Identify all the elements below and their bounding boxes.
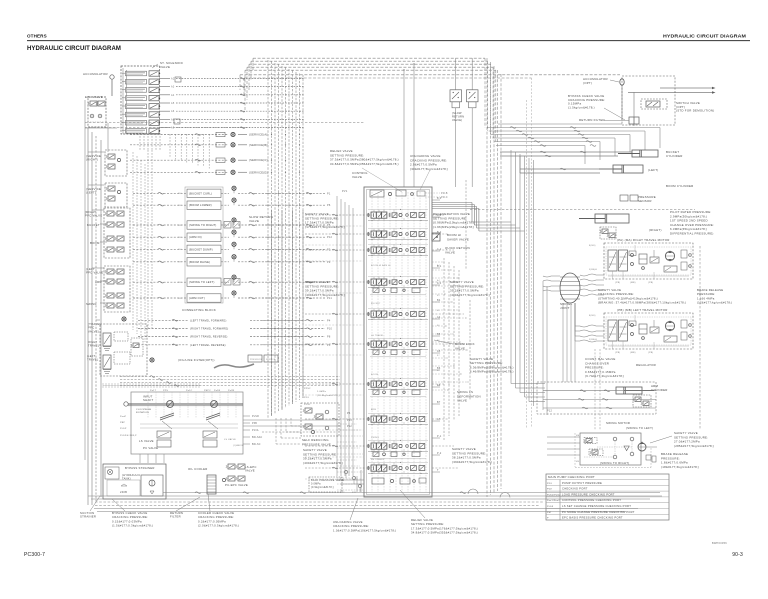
svg-text:WH: WH	[178, 282, 182, 284]
quick return valve on boundary	[432, 233, 440, 241]
boom cylinder wires	[520, 168, 613, 170]
svg-text:BOOM CYLINDER: BOOM CYLINDER	[666, 184, 694, 188]
svg-text:(400&#177;5kg/cm&#178;): (400&#177;5kg/cm&#178;)	[450, 293, 490, 297]
svg-text:B5: B5	[437, 333, 441, 336]
solenoid valve 5	[126, 104, 147, 109]
svg-text:PC-EPC VALVE: PC-EPC VALVE	[225, 483, 248, 487]
swivel joint risers	[562, 303, 564, 382]
travel ppc dark connector mid	[150, 358, 154, 362]
svg-text:B5: B5	[437, 295, 440, 297]
filter hose thick	[214, 364, 254, 368]
control valve auxiliary sub rows	[373, 288, 379, 293]
svg-text:A-2: A-2	[437, 248, 442, 251]
svg-text:PUMP OUTPUT PRESSURE: PUMP OUTPUT PRESSURE	[562, 481, 602, 485]
svg-text:(30&#177;5kg/cm&#178;): (30&#177;5kg/cm&#178;)	[410, 167, 448, 171]
svg-text:MAIN PUMP CHECKING PORT: MAIN PUMP CHECKING PORT	[548, 475, 595, 479]
svg-text:PLSP&#183;P: PLSP&#183;P	[120, 435, 137, 437]
connecting block outline	[185, 187, 223, 303]
svg-text:VALVE: VALVE	[457, 399, 467, 403]
pump internal wires	[147, 392, 149, 418]
solenoid valve 6	[126, 112, 147, 117]
right PPC valve block	[104, 208, 130, 258]
swing motor internals	[584, 438, 597, 444]
pump 2 circle	[211, 401, 218, 408]
hoses into swivel from left	[543, 276, 560, 277]
svg-text:JOINT: JOINT	[560, 306, 570, 310]
svg-text:PPS2: PPS2	[304, 388, 311, 390]
vertical bundle from top corners	[486, 58, 488, 497]
svg-text:BFLSAC: BFLSAC	[252, 436, 263, 439]
svg-text:P-1: P-1	[437, 435, 442, 438]
svg-text:P21: P21	[352, 492, 357, 494]
svg-text:B4: B4	[437, 385, 440, 387]
relief test ports bottom	[344, 470, 347, 473]
solenoid output bus dots	[271, 78, 272, 79]
left frame vertical lines	[87, 128, 89, 505]
arm cylinder	[616, 387, 642, 394]
solenoid output hoses	[240, 78, 245, 80]
svg-text:34.8&#177;0.5MPa(355&#177;5kg/: 34.8&#177;0.5MPa(355&#177;5kg/cm&#178;)	[411, 531, 478, 535]
line to demolition return	[498, 123, 622, 125]
svg-text:A2: A2	[171, 77, 175, 80]
svg-text:A5: A5	[171, 102, 175, 105]
svg-text:PLS1/PLS2: PLS1/PLS2	[547, 494, 561, 496]
arm valve cluster	[633, 395, 651, 407]
svg-text:(SWING TO LEFT): (SWING TO LEFT)	[626, 426, 653, 430]
svg-text:B(MB): B(MB)	[589, 315, 596, 317]
svg-text:P12: P12	[347, 425, 352, 428]
svg-text:PC300-7: PC300-7	[24, 552, 45, 558]
svg-text:A-1: A-1	[437, 282, 442, 285]
svg-text:240B: 240B	[120, 490, 127, 494]
svg-text:DIFFERENTIAL PRESSURE): DIFFERENTIAL PRESSURE)	[670, 232, 714, 236]
svg-text:BUCKET: BUCKET	[371, 303, 381, 305]
svg-text:A5: A5	[437, 309, 440, 312]
svg-text:WH: WH	[178, 237, 182, 239]
left inner feed verticals	[132, 152, 134, 330]
hoses from swivel to left travel motor	[580, 325, 604, 327]
control valve work section 8	[371, 416, 376, 422]
svg-text:SHAFT: SHAFT	[143, 398, 153, 402]
svg-text:WH: WH	[178, 249, 182, 251]
svg-text:LS VALVE: LS VALVE	[139, 439, 154, 443]
top bundle line to accumulator opt	[240, 74, 620, 76]
svg-text:MB: MB	[576, 461, 580, 463]
boom cylinder valve cluster	[600, 227, 616, 239]
svg-text:(1.5kg/cm&#178;): (1.5kg/cm&#178;)	[568, 105, 595, 109]
svg-text:P8: P8	[327, 336, 331, 339]
tank inner box	[107, 480, 140, 496]
service left valve block	[105, 183, 127, 207]
swing internal wires	[614, 441, 616, 455]
vertical feed lines to control valve top	[403, 70, 405, 187]
row (SWING TO LEFT)	[133, 281, 187, 283]
svg-text:(176&#177;5kg/cm&#178;): (176&#177;5kg/cm&#178;)	[305, 225, 345, 229]
svg-text:REGULATOR: REGULATOR	[636, 363, 656, 367]
svg-text:(390&#177;5kg/cm&#178;): (390&#177;5kg/cm&#178;)	[452, 460, 492, 464]
svg-text:(MB): (MB)	[630, 282, 636, 284]
svg-text:VALVE): VALVE)	[88, 329, 99, 333]
solenoid valve 4	[126, 96, 147, 101]
top wire bundle from solenoid block	[253, 57, 485, 59]
svg-text:F(MA)B: F(MA)B	[589, 338, 598, 341]
svg-text:PPS1: PPS1	[304, 404, 311, 406]
right travel motor right valves	[681, 250, 687, 258]
control valve left pilot wires	[305, 214, 364, 216]
svg-text:(BOOM LOWER): (BOOM LOWER)	[189, 203, 212, 207]
return line with bumps	[163, 492, 660, 494]
mid right vertical bundle	[510, 150, 512, 384]
bucket cylinder	[632, 150, 658, 157]
pump swash plates	[160, 413, 174, 420]
travel row (RIGHT TRAVEL REVERSE)	[138, 336, 188, 338]
svg-text:STRAINER: STRAINER	[80, 515, 96, 519]
bus junction dots	[267, 193, 268, 194]
svg-text:PLSP: PLSP	[120, 428, 127, 430]
svg-text:(12&#177;kg/cm&#178;): (12&#177;kg/cm&#178;)	[697, 301, 732, 305]
row (BUCKET DUMP)	[133, 248, 187, 250]
pressure sensor boxes left	[248, 355, 262, 362]
row (ARM IN)	[133, 236, 187, 238]
svg-text:CONNECTING BLOCK: CONNECTING BLOCK	[182, 308, 216, 312]
checking port legend table	[546, 474, 669, 520]
svg-text:WH: WH	[178, 225, 182, 227]
svg-text:(OPT): (OPT)	[583, 81, 592, 85]
travel ppc dark connector top	[122, 317, 126, 321]
right travel motor internal dashed frame	[606, 247, 691, 275]
travel ppc inner dashed boxes	[114, 332, 128, 341]
svg-text:CYLINDER: CYLINDER	[666, 154, 683, 158]
svg-text:PLSR: PLSR	[252, 416, 259, 418]
svg-text:P4: P4	[327, 319, 331, 322]
hydraulic tank outline	[103, 464, 166, 499]
bus horizontal row links	[262, 192, 303, 194]
row (ARM OUT)	[133, 297, 187, 299]
svg-text:SWING MOTOR: SWING MOTOR	[606, 421, 630, 425]
pump drain lines to tank	[139, 454, 141, 463]
svg-text:Pex1/Pex2: Pex1/Pex2	[547, 500, 560, 502]
svg-text:BOOM: BOOM	[90, 241, 100, 245]
svg-text:P41B: P41B	[441, 193, 448, 195]
riser cross stubs bottom	[337, 423, 357, 425]
LS PC valve boxes pump2	[203, 431, 217, 438]
svg-text:B4: B4	[437, 265, 440, 267]
svg-text:(285&#177;5kg/cm&#178;): (285&#177;5kg/cm&#178;)	[674, 444, 714, 448]
LS-EPC PC-EPC valves	[228, 464, 235, 469]
left travel motor right valves	[681, 320, 687, 328]
svg-text:PPC VALVE: PPC VALVE	[85, 214, 102, 218]
svg-text:FILTER: FILTER	[170, 515, 181, 519]
solenoid valve 2	[126, 79, 147, 84]
svg-text:0.0MPa: 0.0MPa	[311, 483, 321, 486]
svg-text:CHECKING PORT: CHECKING PORT	[562, 487, 588, 491]
svg-text:PD1: PD1	[304, 397, 310, 399]
svg-text:(1.96)MPa(20kg/cm&#178;): (1.96)MPa(20kg/cm&#178;)	[433, 225, 475, 229]
svg-text:VALVE: VALVE	[445, 250, 455, 254]
svg-text:B6: B6	[437, 325, 440, 327]
svg-text:P-2: P-2	[437, 452, 442, 455]
slow return valves on swing-to-left row	[224, 279, 231, 286]
boom cylinder left	[613, 165, 643, 173]
control valve left boundary port dots	[363, 214, 364, 215]
oil cooler symbol	[207, 475, 216, 494]
svg-text:(LEFT TRAVEL FORWARD): (LEFT TRAVEL FORWARD)	[190, 319, 227, 322]
solenoid valve 3	[126, 88, 147, 93]
left frame horizontal stubs	[88, 151, 104, 153]
svg-text:PBP: PBP	[120, 422, 125, 424]
svg-text:P3B: P3B	[252, 423, 257, 425]
svg-text:WH: WH	[178, 193, 182, 195]
svg-text:EPC BASIS PRESSURE CHECKING PO: EPC BASIS PRESSURE CHECKING PORT	[562, 516, 623, 520]
travel row (LEFT TRAVEL REVERSE)	[138, 344, 188, 346]
service port rows	[130, 134, 228, 136]
svg-text:90-3: 90-3	[732, 552, 743, 558]
control valve work section 7	[371, 381, 376, 387]
left travel motor middle valve	[650, 327, 659, 333]
right travel motor counterbalance valves	[608, 250, 617, 271]
svg-text:LOAD PRESSURE CHECKING PORT: LOAD PRESSURE CHECKING PORT	[562, 492, 615, 496]
svg-text:(OIL/LINE FILTER(OPT)): (OIL/LINE FILTER(OPT))	[178, 358, 215, 362]
solenoid block feed lines left	[122, 68, 124, 134]
control valve work section 1	[371, 212, 376, 218]
svg-text:F(MA)B: F(MA)B	[589, 268, 598, 271]
svg-text:SENSOR: SENSOR	[638, 199, 652, 203]
svg-text:VALVE: VALVE	[160, 65, 170, 69]
svg-text:P12: P12	[327, 236, 333, 239]
svg-text:(BRAKING :37.4&#177;0.98MPa(38: (BRAKING :37.4&#177;0.98MPa(380&#177;10k…	[598, 301, 686, 305]
bottom frame notches	[468, 489, 478, 494]
svg-text:PRESSURE VALVE: PRESSURE VALVE	[302, 442, 331, 446]
svg-text:P6: P6	[327, 204, 331, 207]
accumulator opt drop wire	[621, 85, 623, 120]
cylinder supply line bundle right side	[487, 127, 660, 129]
svg-text:(HYDRAULIC: (HYDRAULIC	[122, 473, 140, 477]
swivel left feed verticals	[542, 281, 544, 410]
svg-text:(18&#177;6kg/cm&#178;): (18&#177;6kg/cm&#178;)	[661, 465, 699, 469]
svg-text:A4: A4	[437, 279, 440, 282]
svg-text:WH: WH	[178, 262, 182, 264]
svg-text:(I)VALVE: (I)VALVE	[233, 444, 244, 447]
return filter symbol	[629, 117, 639, 124]
svg-text:(400&#177;5kg/cm&#178;): (400&#177;5kg/cm&#178;)	[303, 461, 343, 465]
row (BOOM LOWER)	[133, 204, 187, 206]
control valve work section 4	[371, 279, 376, 285]
solenoid valve block outline	[121, 66, 160, 134]
control valve internal vertical dashed lines	[371, 192, 373, 492]
svg-text:RH TRAVEL: RH TRAVEL	[371, 458, 385, 461]
svg-text:A7: A7	[437, 369, 440, 372]
svg-text:(PB): (PB)	[615, 282, 620, 284]
pump 1 circle	[167, 401, 174, 408]
svg-text:(BOOM RAISE): (BOOM RAISE)	[189, 260, 210, 264]
left travel motor speed change valve	[664, 336, 677, 342]
solenoid valve 7	[126, 120, 147, 125]
svg-text:1.0MPa: 1.0MPa	[317, 391, 327, 393]
main pump outline	[131, 392, 243, 454]
wires solenoid outputs to right with port labels	[159, 77, 170, 79]
travel ppc valve left-travel	[103, 355, 111, 369]
svg-text:(10.8kg/cm&#178;): (10.8kg/cm&#178;)	[317, 395, 340, 397]
svg-text:(1.5&#177;0.3kg/cm&#178;): (1.5&#177;0.3kg/cm&#178;)	[112, 524, 153, 528]
slow return valve pair	[450, 90, 462, 102]
svg-text:B7: B7	[437, 355, 440, 357]
svg-text:WH: WH	[178, 205, 182, 207]
svg-text:P1: P1	[327, 192, 331, 195]
svg-text:PRESSURE: PRESSURE	[250, 359, 263, 361]
svg-text:BWP00056: BWP00056	[712, 541, 727, 545]
svg-text:BYPASS STRAINER: BYPASS STRAINER	[125, 466, 155, 470]
svg-text:VALVE: VALVE	[249, 219, 259, 223]
svg-text:(SWING TO RIGHT): (SWING TO RIGHT)	[600, 461, 629, 465]
control valve work section 10	[371, 465, 376, 471]
travel PPC valve block	[100, 324, 147, 376]
svg-text:(400&#177;5kg/cm&#178;): (400&#177;5kg/cm&#178;)	[305, 293, 345, 297]
control valve work section 6	[371, 341, 376, 347]
svg-text:BUCKET: BUCKET	[87, 223, 100, 227]
svg-text:HYDRAULIC CIRCUIT DIAGRAM: HYDRAULIC CIRCUIT DIAGRAM	[27, 45, 121, 52]
svg-text:(ARM IN): (ARM IN)	[189, 235, 202, 239]
input shaft line	[128, 403, 243, 405]
svg-text:(LEFT): (LEFT)	[648, 168, 659, 172]
svg-text:(6.7&#177;2kg/cm&#178;): (6.7&#177;2kg/cm&#178;)	[585, 374, 624, 378]
svg-text:P13A: P13A	[252, 429, 259, 432]
accumulator symbol	[110, 75, 114, 79]
svg-text:(STD FOR DEMOLITION): (STD FOR DEMOLITION)	[676, 109, 714, 113]
right bus verticals between cv and frames	[443, 258, 445, 440]
travel row (RIGHT TRAVEL FORWARD)	[138, 328, 188, 330]
svg-text:(MB): (MB)	[630, 352, 636, 354]
mid right bundle corners to arm	[511, 383, 545, 385]
svg-text:A7: A7	[437, 418, 441, 421]
svg-text:SAVER VALVE: SAVER VALVE	[447, 237, 469, 241]
main feed bundle from valve top right	[432, 202, 472, 204]
svg-text:ACCUMULATOR: ACCUMULATOR	[83, 72, 108, 76]
bus extension to self reducing cluster	[275, 418, 277, 444]
svg-text:(2.0&#177;0.5kg/cm&#178;): (2.0&#177;0.5kg/cm&#178;)	[198, 524, 239, 528]
svg-text:(LEFT): (LEFT)	[86, 191, 96, 195]
right ladder horizontal stubs	[432, 261, 444, 263]
svg-text:(BUCKET DUMP): (BUCKET DUMP)	[189, 247, 213, 251]
svg-text:P10: P10	[327, 328, 333, 331]
arrows to tank right	[660, 87, 712, 89]
svg-text:(SERVICE(B)): (SERVICE(B))	[249, 143, 269, 147]
drain dashed line right	[699, 246, 701, 430]
row (BOOM RAISE)	[133, 261, 187, 263]
svg-text:T: T	[437, 469, 439, 472]
svg-text:A4: A4	[437, 316, 441, 319]
pump bus horizontals	[120, 376, 340, 378]
right ladder junction dots	[443, 281, 444, 282]
self reducing valve cluster	[301, 403, 339, 436]
svg-text:(RIGHT): (RIGHT)	[649, 228, 662, 232]
svg-text:TRAVEL: TRAVEL	[87, 358, 99, 362]
small box on A2 wire	[175, 77, 181, 82]
svg-text:(ARM OUT): (ARM OUT)	[189, 296, 205, 300]
svg-text:B(MB): B(MB)	[589, 245, 596, 247]
svg-text:ARM: ARM	[371, 408, 376, 411]
swivel joint symbol	[560, 273, 580, 303]
svg-text:(0.9kg/cm&#178;): (0.9kg/cm&#178;)	[311, 486, 334, 489]
svg-text:VALVE: VALVE	[455, 346, 465, 350]
drain dashed lines bottom	[95, 501, 543, 503]
svg-text:CONTROL PRESSURE CHECKING PORT: CONTROL PRESSURE CHECKING PORT	[562, 498, 621, 502]
svg-text:(PB): (PB)	[648, 352, 653, 354]
swing motor symbol	[638, 443, 646, 451]
vertical pilot bus bundle	[267, 60, 269, 418]
row (SWING TO RIGHT)	[133, 224, 187, 226]
control valve outer boundary	[364, 187, 432, 497]
svg-text:(BUCKET CURL): (BUCKET CURL)	[189, 191, 212, 195]
svg-text:LH TRAVEL: LH TRAVEL	[371, 334, 385, 337]
svg-text:B7: B7	[437, 401, 441, 404]
arm hoses	[543, 390, 656, 392]
solenoid valve 8	[126, 129, 147, 134]
right travel motor internal wires	[608, 275, 689, 277]
bypass strainer symbol	[105, 467, 119, 479]
pump to valve riser lines	[336, 196, 338, 476]
svg-text:B4: B4	[437, 299, 441, 302]
svg-text:(PB): (PB)	[615, 352, 620, 354]
svg-text:BOOM HI ARM HI: BOOM HI ARM HI	[371, 264, 391, 267]
left travel motor shuttle valve	[639, 324, 647, 334]
travel ppc valve right-travel	[103, 333, 111, 346]
swing brake parts	[646, 455, 651, 460]
solenoid feed bus down-left	[139, 133, 141, 150]
solenoid valve 1	[126, 71, 147, 76]
pilot return long dashed line left	[85, 122, 364, 124]
return filter assembly	[141, 475, 163, 496]
svg-text:PLS3: PLS3	[547, 506, 554, 508]
control valve outlet section	[372, 478, 384, 484]
svg-text:PC VALVE: PC VALVE	[143, 446, 158, 450]
svg-text:P9: P9	[327, 261, 331, 264]
EPC valve internals	[90, 101, 97, 106]
left travel motor counterbalance valves	[608, 320, 617, 341]
svg-text:P22: P22	[340, 492, 345, 494]
svg-text:TRAVEL: TRAVEL	[88, 344, 100, 348]
swing motor box	[580, 433, 641, 465]
header rule	[27, 40, 750, 42]
control valve work section 5	[371, 311, 376, 317]
switch valve box	[641, 99, 667, 109]
svg-text:OTHERS: OTHERS	[27, 34, 47, 39]
svg-text:OIL COOLER: OIL COOLER	[188, 467, 208, 471]
service right valve block	[105, 150, 127, 176]
svg-text:VALVE: VALVE	[352, 175, 362, 179]
hoses from swivel to travel motors	[580, 274, 604, 276]
right travel motor speed change valve	[664, 266, 677, 272]
left travel to swing drain dashes	[594, 349, 596, 430]
demolition dashed enclosure	[622, 76, 675, 125]
right travel motor outline	[604, 243, 693, 279]
accumulator opt symbol	[620, 79, 624, 85]
right travel motor check valves	[631, 254, 634, 257]
svg-text:(RIGHT TRAVEL FORWARD): (RIGHT TRAVEL FORWARD)	[190, 328, 228, 331]
svg-text:(PA) (MA) RIGHT TRAVEL MO: (PA) (MA) RIGHT TRAVEL MOTOR	[617, 238, 670, 242]
pump top port comb ticks	[102, 383, 104, 388]
svg-text:(SWING TO LEFT): (SWING TO LEFT)	[189, 280, 215, 284]
svg-text:(SERVICE(D)): (SERVICE(D))	[249, 170, 269, 174]
svg-text:SENSOR: SENSOR	[266, 359, 276, 361]
control valve right junction wires	[432, 214, 444, 216]
svg-text:RETURN FILTER: RETURN FILTER	[579, 118, 605, 122]
long dashed vertical pair crossing right side	[526, 100, 528, 428]
left PPC valve block	[104, 266, 130, 312]
control valve work section 3	[371, 247, 376, 253]
bucket cylinder wires	[500, 151, 632, 153]
svg-text:SWING: SWING	[371, 437, 379, 439]
svg-text:(RIGHT TRAVEL REVERSE): (RIGHT TRAVEL REVERSE)	[190, 336, 228, 339]
